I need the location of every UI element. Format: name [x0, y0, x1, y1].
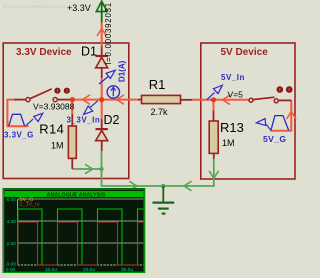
svg-text:D2: D2	[104, 113, 120, 127]
svg-text:1M: 1M	[222, 138, 235, 148]
svg-text:10.0u: 10.0u	[45, 267, 57, 273]
svg-text:3.3V Device: 3.3V Device	[16, 47, 72, 58]
svg-text:ANALOGUE ANALYSIS: ANALOGUE ANALYSIS	[47, 192, 106, 198]
svg-text:+3.3V: +3.3V	[67, 3, 91, 13]
svg-text:R13: R13	[220, 120, 244, 135]
svg-text:V=3.93088: V=3.93088	[33, 102, 75, 112]
svg-text:0.00: 0.00	[6, 261, 16, 267]
svg-text:1M: 1M	[51, 141, 64, 151]
svg-text:V=5: V=5	[228, 90, 244, 100]
svg-text:2.00: 2.00	[6, 241, 16, 247]
svg-text:30.0u: 30.0u	[121, 267, 133, 273]
svg-text:R1: R1	[149, 77, 166, 92]
svg-text:5V_In: 5V_In	[221, 73, 245, 82]
svg-text:5V Device: 5V Device	[221, 47, 269, 58]
svg-text:2.7k: 2.7k	[151, 107, 169, 117]
svg-text:D1: D1	[81, 45, 97, 59]
svg-text:5V_G: 5V_G	[263, 134, 286, 144]
svg-text:20.0u: 20.0u	[83, 267, 95, 273]
svg-text:3_3V_In: 3_3V_In	[20, 202, 40, 208]
svg-text:I=0.000392031: I=0.000392031	[104, 2, 113, 65]
svg-text:0.00: 0.00	[6, 267, 16, 273]
svg-text:3.3V_G: 3.3V_G	[4, 131, 34, 140]
svg-text:R14: R14	[39, 122, 64, 137]
svg-text:6.00: 6.00	[6, 197, 16, 203]
svg-text:4.00: 4.00	[6, 219, 16, 225]
svg-text:D1(A): D1(A)	[118, 60, 127, 82]
svg-text:for we.easyelectronics.ru: for we.easyelectronics.ru	[3, 4, 65, 10]
svg-text:3_3V_In: 3_3V_In	[67, 116, 101, 125]
